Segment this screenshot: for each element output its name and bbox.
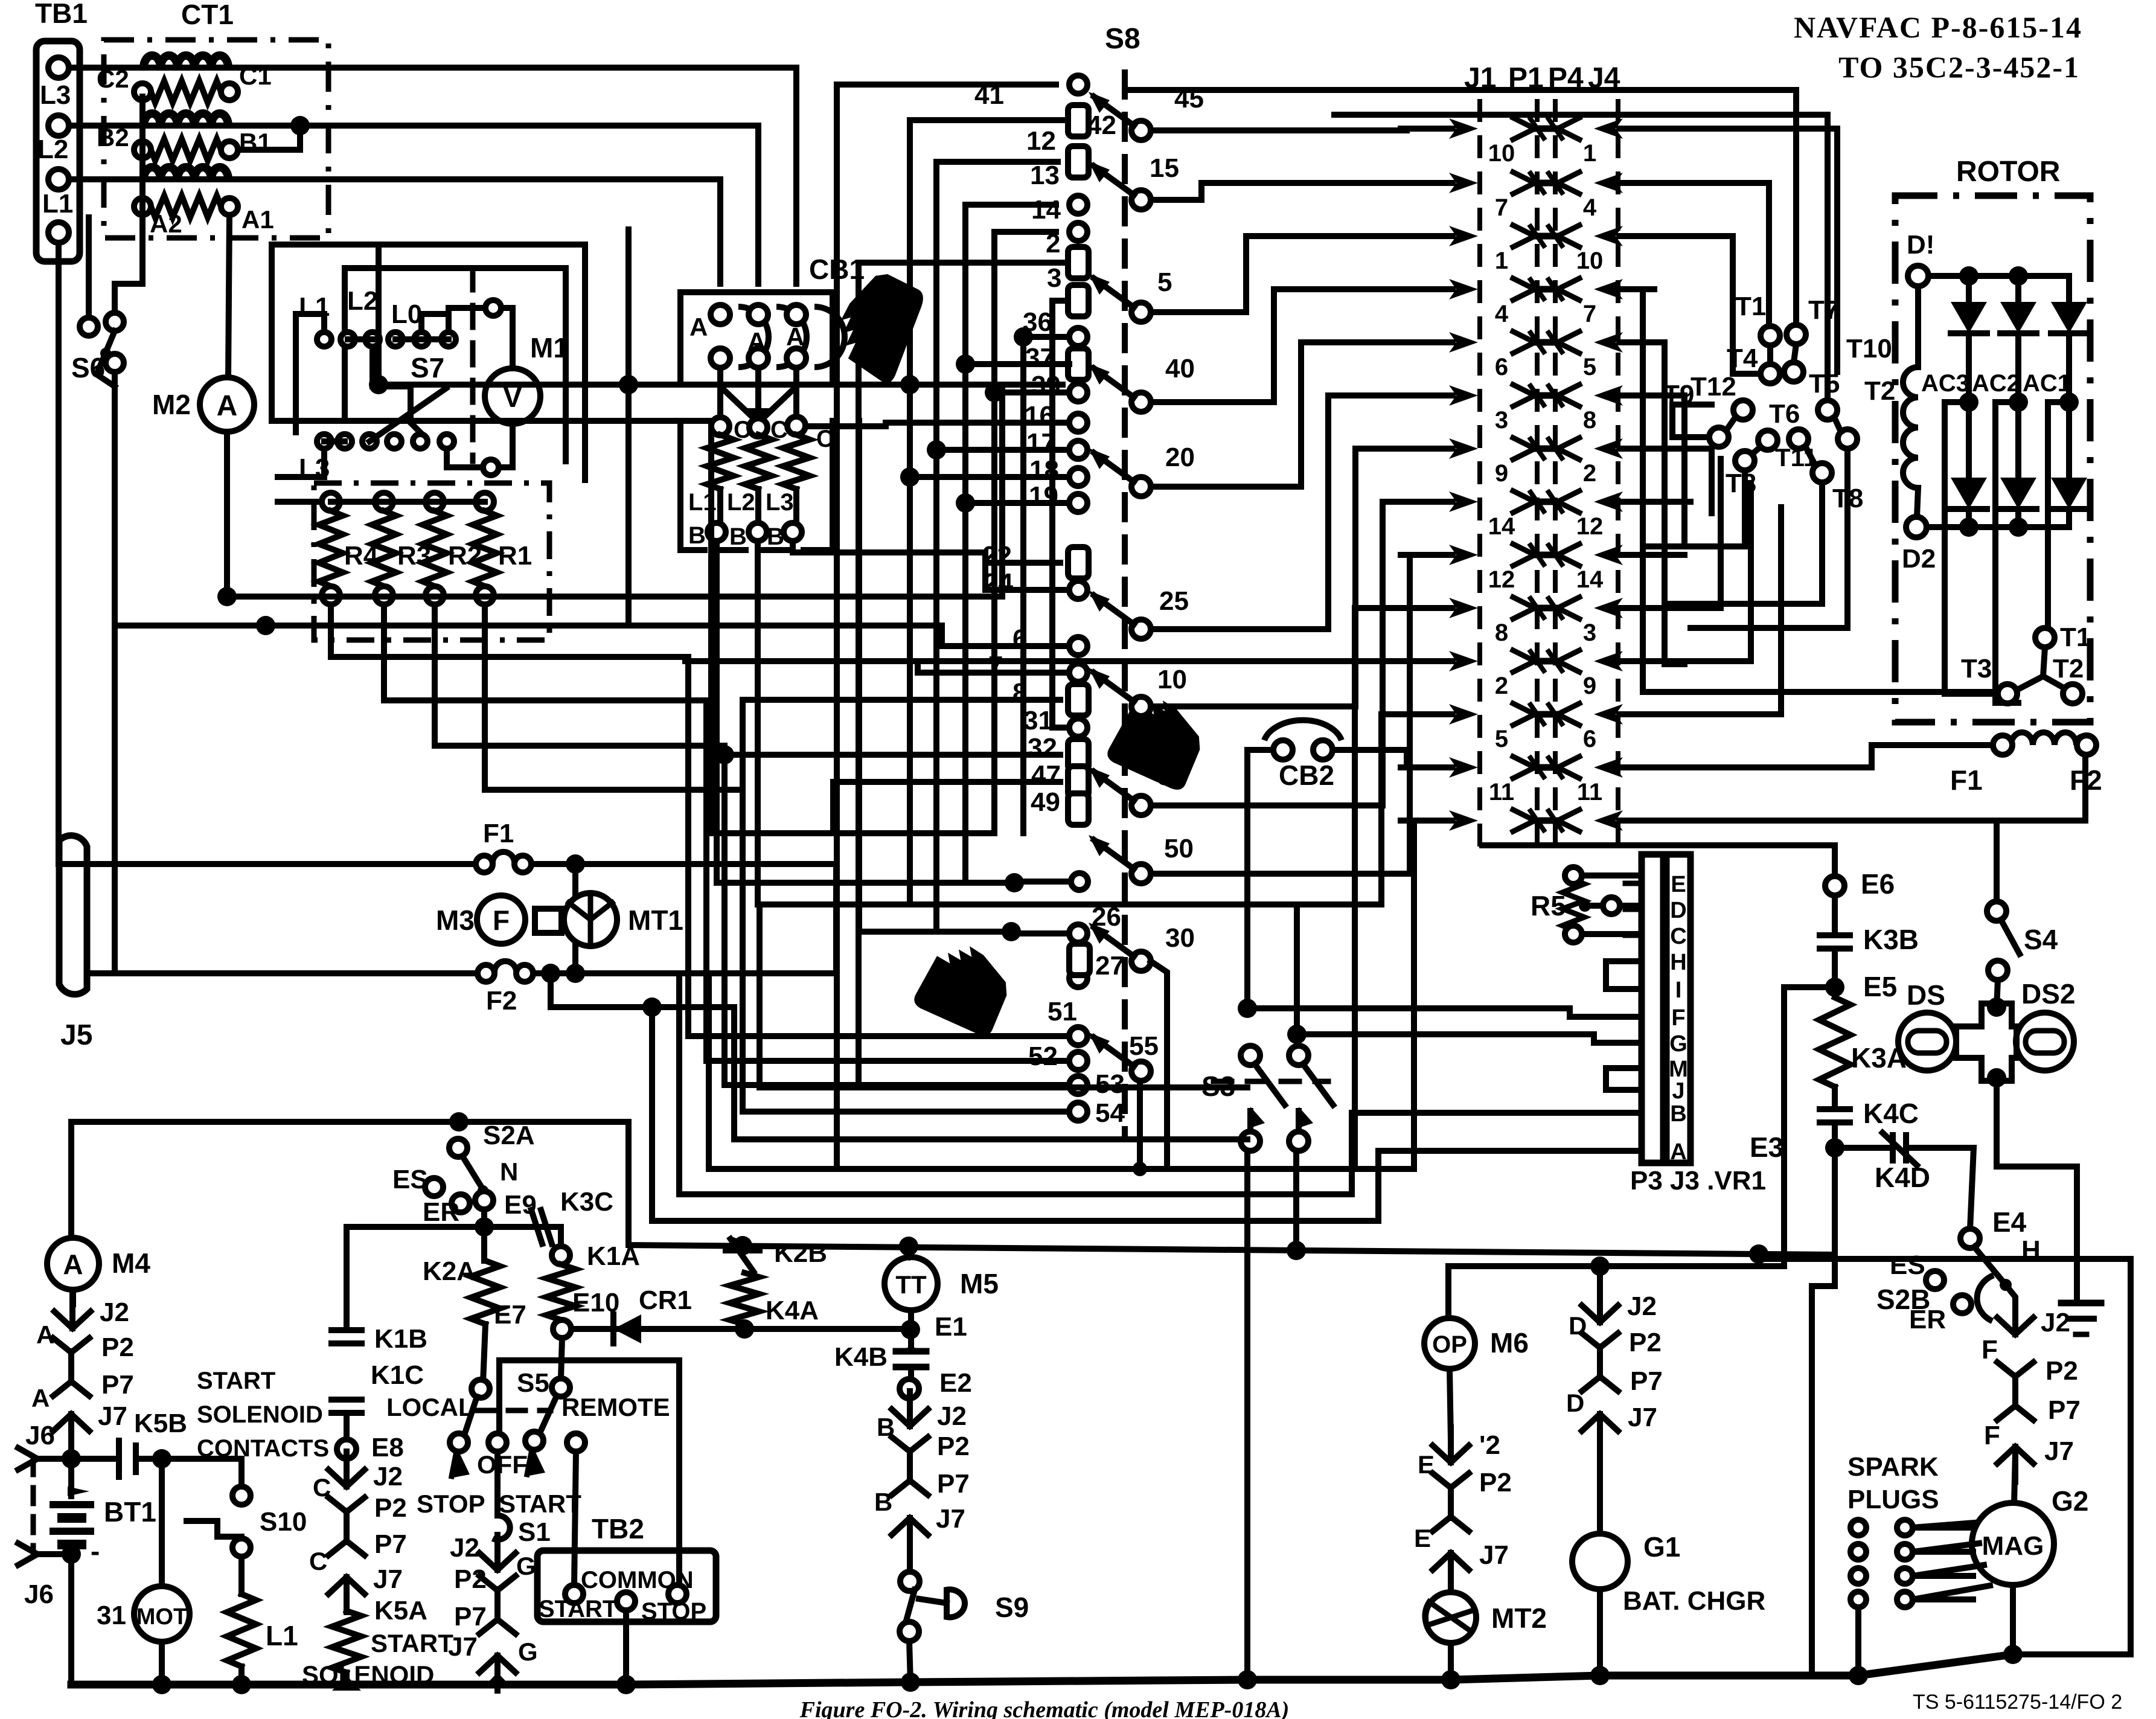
rotor diode bottom AC1 bbox=[2051, 478, 2087, 509]
S3 junction left bbox=[1238, 999, 1257, 1018]
S8 wiper blade 30 bbox=[1094, 927, 1134, 956]
wire M4 down bbox=[70, 1290, 76, 1304]
wire S10 to L1 bbox=[238, 1557, 245, 1594]
svg-text:K4C: K4C bbox=[1863, 1098, 1919, 1129]
svg-text:10: 10 bbox=[1157, 665, 1187, 694]
M6 J7 arrow bbox=[1448, 1553, 1454, 1588]
svg-text:K3C: K3C bbox=[560, 1187, 613, 1217]
svg-text:J6: J6 bbox=[24, 1580, 54, 1609]
CB1 pole wire bbox=[793, 368, 799, 417]
svg-text:E8: E8 bbox=[371, 1433, 404, 1462]
wire CB1 B2 out bbox=[755, 541, 761, 904]
E8 terminal bbox=[337, 1439, 356, 1459]
CT1 secondary B left terminal bbox=[134, 141, 151, 158]
svg-text:P7: P7 bbox=[2048, 1395, 2081, 1425]
wire S8 19 left bbox=[965, 500, 1069, 506]
svg-text:J7: J7 bbox=[448, 1632, 478, 1662]
svg-text:G1: G1 bbox=[1643, 1531, 1680, 1563]
S6 lower contact bbox=[106, 354, 124, 372]
rotor diode bottom AC3 bbox=[1951, 478, 1987, 509]
junction bus s3 bbox=[1238, 1670, 1257, 1689]
wire M5 stub bbox=[909, 1246, 911, 1257]
E3 junction bbox=[1825, 1138, 1844, 1157]
S3 blade 2 bbox=[1303, 1064, 1333, 1105]
svg-text:P7: P7 bbox=[937, 1469, 970, 1499]
svg-text:E1: E1 bbox=[935, 1312, 967, 1342]
svg-text:P3 J3 .VR1: P3 J3 .VR1 bbox=[1630, 1166, 1766, 1196]
E1 junction bbox=[901, 1320, 920, 1339]
S8 terminal 26 bbox=[1069, 924, 1087, 943]
ER contact right bbox=[1953, 1295, 1971, 1313]
rotor wye T3 terminal bbox=[1998, 684, 2017, 703]
relay coil K5A bbox=[332, 1611, 361, 1673]
svg-text:15: 15 bbox=[1150, 153, 1179, 183]
junction spark bottom bbox=[1849, 1666, 1868, 1685]
connector row 8 J1 arrow bbox=[1449, 491, 1478, 512]
wire S8 39 left bbox=[994, 389, 1069, 395]
svg-text:LOCAL: LOCAL bbox=[386, 1393, 474, 1421]
svg-text:14: 14 bbox=[1576, 566, 1604, 593]
S8 wiper blade 15 bbox=[1094, 166, 1134, 195]
B J7 arrow bbox=[907, 1518, 913, 1553]
wire 55 down bbox=[1137, 1081, 1143, 1169]
K1A top contact bbox=[552, 1246, 570, 1264]
bus y988 bbox=[227, 594, 1002, 600]
wire E9 bus bbox=[347, 1224, 484, 1230]
VR1 pin stub G bbox=[1625, 1040, 1642, 1046]
resistor R4 top terminal bbox=[322, 493, 340, 511]
rotor wye T2 terminal bbox=[2063, 684, 2082, 703]
svg-text:7: 7 bbox=[1583, 301, 1596, 327]
svg-text:REMOTE: REMOTE bbox=[561, 1393, 670, 1421]
svg-text:G: G bbox=[1669, 1031, 1687, 1057]
svg-text:L3: L3 bbox=[299, 453, 330, 483]
svg-text:8: 8 bbox=[1583, 407, 1596, 434]
resistor R4 bottom terminal bbox=[322, 586, 340, 604]
connector row 9 fish bbox=[1513, 544, 1535, 566]
TB1 terminal L2 bbox=[48, 115, 69, 136]
M6 P2 P7 pair bbox=[1448, 1487, 1454, 1518]
S8 terminal 16 bbox=[1069, 414, 1087, 432]
wire bundle corner v1216 bbox=[734, 1007, 1247, 1139]
bus y637 bbox=[379, 382, 1063, 388]
VR1 pin stub J bbox=[1625, 1087, 1642, 1093]
S8 wiper contact 25 bbox=[1131, 619, 1151, 639]
svg-text:53: 53 bbox=[1095, 1069, 1125, 1099]
bus y1036 bbox=[115, 623, 685, 629]
VR1 pin stub I bbox=[1625, 987, 1642, 992]
svg-text:E3: E3 bbox=[1750, 1132, 1783, 1163]
svg-text:B: B bbox=[874, 1488, 892, 1516]
E10 terminal bbox=[553, 1320, 571, 1338]
svg-text:S4: S4 bbox=[2024, 924, 2058, 955]
resistor R1 bottom terminal bbox=[476, 586, 494, 604]
svg-text:ES: ES bbox=[1890, 1250, 1925, 1280]
S9 blade bbox=[904, 1590, 915, 1627]
svg-text:2: 2 bbox=[1583, 460, 1596, 487]
wire K4C down bbox=[1832, 1122, 1838, 1148]
S3 blade 1 bbox=[1255, 1064, 1285, 1105]
S2B arc bbox=[1977, 1275, 1994, 1321]
svg-text:B: B bbox=[688, 522, 706, 549]
connector row 6 fish bbox=[1513, 385, 1535, 406]
wire S3 right drop bbox=[1294, 904, 1300, 1034]
wire S8 36 left bbox=[1023, 337, 1069, 833]
fuse F2 wire bbox=[87, 970, 478, 976]
spark plug 2 bbox=[1897, 1544, 1913, 1560]
CT1 primary coil C bbox=[144, 56, 228, 68]
wire 20 to J1 bbox=[1151, 342, 1446, 487]
S8 terminal 51 bbox=[1069, 1027, 1087, 1045]
connector dashed line bbox=[1553, 101, 1558, 845]
S8 wiper contact 20 bbox=[1131, 477, 1151, 496]
svg-text:L1: L1 bbox=[42, 189, 73, 219]
wire S8 3 left bbox=[1052, 301, 1063, 728]
wire 53 col down bbox=[721, 746, 728, 1085]
S8 terminal 36 bbox=[1069, 328, 1087, 346]
junction G1 bottom bbox=[1590, 1666, 1610, 1685]
wire A2 down to S6 bbox=[86, 217, 92, 317]
wire bundle h2 bbox=[999, 385, 1005, 597]
wire S8 13 left bbox=[965, 205, 1056, 883]
svg-text:OFF: OFF bbox=[477, 1450, 528, 1479]
CT1 secondary A right terminal bbox=[221, 198, 238, 215]
wire S8 47 left bbox=[833, 782, 1060, 833]
wire E9 down bbox=[481, 1209, 487, 1261]
svg-text:10: 10 bbox=[1488, 140, 1515, 167]
wire CB1 B1 out bbox=[717, 541, 1070, 883]
wire MT2 down bbox=[1448, 1643, 1454, 1680]
S7 outer box bbox=[272, 245, 585, 480]
svg-text:L0: L0 bbox=[391, 299, 422, 329]
S7 bottom contact row bbox=[317, 434, 331, 449]
VR1 pin stub E bbox=[1625, 881, 1642, 886]
S4 blade bbox=[2001, 920, 2020, 954]
starter motor MOT bbox=[134, 1586, 190, 1642]
svg-text:F: F bbox=[493, 904, 510, 936]
capacitor K1C bbox=[331, 1397, 362, 1403]
wire 51 col down bbox=[685, 657, 691, 1036]
START contact bbox=[525, 1432, 543, 1450]
wire K3C right bbox=[484, 1224, 520, 1230]
svg-text:27: 27 bbox=[1095, 951, 1125, 981]
S8 terminal 19 bbox=[1069, 494, 1087, 512]
wire G1 down bbox=[1597, 1589, 1603, 1676]
wire E4 to col bbox=[2006, 1285, 2015, 1309]
spark gap left 2 bbox=[1851, 1544, 1866, 1560]
T terminal T8 bbox=[1812, 463, 1832, 482]
svg-text:K4B: K4B bbox=[834, 1342, 888, 1372]
bottom bus bbox=[71, 1654, 2013, 1685]
svg-text:TB2: TB2 bbox=[592, 1513, 644, 1545]
svg-text:12: 12 bbox=[1488, 566, 1515, 593]
S7 internal wiring 2 bbox=[373, 348, 420, 432]
svg-text:S8: S8 bbox=[1105, 23, 1140, 55]
wire MAG down bbox=[2010, 1585, 2016, 1654]
S8 terminal 31 bbox=[1069, 719, 1087, 737]
TB2 COMMON terminal bbox=[617, 1592, 635, 1610]
junction J6 minus bbox=[62, 1545, 81, 1564]
connector row 11 J4 arrow bbox=[1594, 651, 1623, 671]
relay K3A zigzag bbox=[1819, 997, 1851, 1087]
CB1 pole bottom contact bbox=[787, 348, 806, 368]
svg-text:13: 13 bbox=[1030, 161, 1060, 190]
svg-text:S9: S9 bbox=[995, 1592, 1029, 1623]
junction J6 plus bbox=[62, 1449, 81, 1468]
svg-text:F1: F1 bbox=[483, 819, 514, 848]
S8 wiper contact 40 bbox=[1131, 392, 1151, 412]
S8 wiper blade 40 bbox=[1094, 368, 1134, 397]
junction 19 feed bbox=[956, 493, 975, 513]
lamp DS bbox=[1898, 1013, 1956, 1071]
CB1 C contacts bbox=[711, 417, 729, 435]
S10 squiggle bbox=[187, 1521, 242, 1537]
junction v1080 bbox=[642, 997, 662, 1017]
svg-text:ER: ER bbox=[423, 1197, 459, 1227]
connector row 10 J1 arrow bbox=[1449, 598, 1478, 618]
svg-text:M6: M6 bbox=[1490, 1327, 1529, 1359]
wire K2A down bbox=[483, 1324, 485, 1383]
wire L2 line bbox=[69, 126, 758, 284]
rotor diode top AC2 bbox=[2015, 276, 2021, 302]
connector row 1 J1 arrow bbox=[1449, 118, 1478, 139]
svg-text:19: 19 bbox=[1029, 481, 1058, 511]
field coil right terminal bbox=[2077, 735, 2096, 755]
wire S6 down bbox=[87, 372, 115, 973]
CB1 heater lead bbox=[755, 489, 761, 523]
junction 39 feed bbox=[985, 383, 1004, 402]
svg-text:S2B: S2B bbox=[1876, 1284, 1930, 1315]
ground symbol bbox=[2061, 1300, 2101, 1307]
S8 terminal 49 bbox=[1068, 793, 1089, 825]
G1 J7 arrow bbox=[1597, 1414, 1603, 1449]
S8 wiper blade 35 bbox=[1094, 772, 1134, 801]
wire S8 17 left bbox=[936, 447, 1069, 453]
wire 40 to J1 bbox=[1151, 289, 1446, 402]
capacitor K1B bbox=[331, 1327, 362, 1333]
S8 terminal 41 bbox=[1069, 75, 1087, 94]
wire 54 col down bbox=[740, 700, 746, 1112]
CB2 contact right bbox=[1313, 740, 1332, 760]
svg-text:A: A bbox=[786, 322, 804, 351]
wire J4 r11 bbox=[1654, 483, 1751, 661]
svg-text:K3B: K3B bbox=[1863, 924, 1919, 955]
bus y2097 bbox=[1448, 1263, 1784, 1269]
wire T8 drop bbox=[1665, 482, 1822, 604]
svg-text:30: 30 bbox=[1165, 923, 1195, 953]
M6 J2 arrow bbox=[1448, 1427, 1454, 1462]
wire S3 pole2 down bbox=[1293, 1151, 1299, 1250]
junction 37 feed bbox=[956, 354, 975, 374]
connector row 3 J4 arrow bbox=[1594, 226, 1623, 246]
svg-text:52: 52 bbox=[1028, 1042, 1058, 1071]
svg-text:J5: J5 bbox=[60, 1019, 92, 1051]
wire E5 left bbox=[1784, 987, 1835, 1266]
svg-text:K2A: K2A bbox=[423, 1256, 476, 1286]
S8 wiper contact 15 bbox=[1131, 190, 1151, 210]
svg-text:T2: T2 bbox=[2053, 654, 2084, 683]
wire R top feed bbox=[278, 499, 322, 505]
wire bundle corner v1258 bbox=[760, 904, 1247, 1087]
svg-text:T10: T10 bbox=[1846, 334, 1892, 363]
connector row 4 J1 arrow bbox=[1449, 279, 1478, 299]
S7 internal wiring 1 bbox=[296, 314, 324, 432]
svg-text:A: A bbox=[63, 1249, 83, 1280]
rotor junction top a bbox=[1959, 266, 1978, 286]
wire S8 2 left bbox=[859, 263, 1063, 1087]
S6 contact 2 bbox=[106, 313, 124, 331]
R5 bottom terminal bbox=[1565, 926, 1582, 943]
S7 top contact row bbox=[317, 332, 331, 347]
wire F2 branch2 bbox=[679, 973, 1642, 1194]
S6 blade bbox=[97, 331, 115, 386]
wire CB2 right to J1 bbox=[1332, 750, 1446, 767]
wire M6 down bbox=[1450, 1369, 1451, 1440]
spark plug 4 bbox=[1897, 1592, 1913, 1607]
spark plug 1 bbox=[1897, 1520, 1913, 1535]
S10 contact bottom bbox=[232, 1538, 251, 1557]
wire ground stub bbox=[2074, 1292, 2080, 1303]
CB1 pole bottom contact bbox=[749, 348, 768, 368]
svg-text:1: 1 bbox=[1495, 248, 1508, 274]
svg-text:F1: F1 bbox=[1950, 764, 1983, 796]
svg-text:TO 35C2-3-452-1: TO 35C2-3-452-1 bbox=[1838, 50, 2080, 84]
svg-text:A1: A1 bbox=[242, 205, 274, 234]
CT1 primary coil A bbox=[144, 167, 228, 179]
svg-text:4: 4 bbox=[1495, 301, 1509, 327]
svg-text:5: 5 bbox=[1157, 267, 1172, 297]
wire M4 top bbox=[68, 1122, 74, 1239]
wire S4 down bbox=[1997, 980, 1998, 1007]
connector row 11 fish bbox=[1513, 650, 1535, 672]
magneto MAG bbox=[1972, 1503, 2054, 1585]
E8 J7 arrow bbox=[344, 1577, 350, 1612]
junction MAG corner bbox=[1749, 1244, 1768, 1264]
wire J4 r10 bbox=[1654, 459, 1721, 608]
S7 bottom strap bbox=[324, 438, 345, 444]
S1 switch bbox=[493, 1516, 510, 1540]
resistor R4 bbox=[319, 511, 343, 586]
junction y637 a bbox=[369, 375, 388, 394]
contact K2B bbox=[740, 1246, 746, 1251]
svg-text:7: 7 bbox=[988, 651, 1003, 680]
VR1 pin stub H bbox=[1625, 959, 1642, 964]
svg-text:B: B bbox=[767, 523, 784, 550]
S8 wiper blade 45 bbox=[1094, 97, 1134, 126]
diode CR1 bbox=[613, 1314, 641, 1343]
svg-text:M2: M2 bbox=[152, 389, 191, 420]
wire J4 r1 bbox=[1654, 129, 1837, 372]
E2 J2 arrow bbox=[907, 1391, 913, 1426]
CB1 pole top contact bbox=[787, 305, 806, 324]
wire 25 to J1 bbox=[1151, 395, 1446, 629]
K3C contact bbox=[520, 1224, 555, 1230]
svg-text:J2: J2 bbox=[2041, 1308, 2070, 1337]
svg-text:1: 1 bbox=[1583, 140, 1596, 167]
STOP contact bbox=[450, 1433, 468, 1452]
T terminal T3 bbox=[1735, 451, 1755, 470]
oil pressure M6 bbox=[1424, 1318, 1475, 1369]
svg-text:T3: T3 bbox=[1961, 654, 1992, 683]
T terminal T7 bbox=[1787, 325, 1806, 344]
svg-text:T6: T6 bbox=[1769, 399, 1800, 429]
junction 18 feed bbox=[900, 467, 920, 487]
svg-text:P7: P7 bbox=[374, 1529, 407, 1559]
bus x1041 bbox=[625, 229, 632, 626]
svg-text:6: 6 bbox=[1495, 354, 1508, 380]
M4 P2 P7 pair bbox=[68, 1351, 74, 1383]
S8 wiper contact 50 bbox=[1131, 864, 1151, 883]
connector row 12 fish bbox=[1513, 703, 1535, 725]
svg-text:M5: M5 bbox=[960, 1268, 999, 1299]
svg-text:J7: J7 bbox=[98, 1401, 127, 1431]
fuse F2 bbox=[478, 965, 494, 982]
S1 J2 arrow bbox=[494, 1535, 501, 1570]
E6 terminal bbox=[1825, 876, 1844, 895]
S8 terminal 52 bbox=[1069, 1052, 1087, 1070]
svg-text:PLUGS: PLUGS bbox=[1847, 1485, 1939, 1514]
svg-text:OP: OP bbox=[1432, 1331, 1467, 1358]
svg-text:D: D bbox=[1566, 1389, 1584, 1417]
R resistor dashed box bbox=[314, 483, 549, 640]
svg-text:2: 2 bbox=[1046, 229, 1060, 258]
rotor junction bottom b bbox=[2009, 517, 2028, 537]
junction 49 wire bbox=[1005, 873, 1024, 892]
junction E9 bbox=[475, 1217, 494, 1237]
T strap T1 T4 bbox=[1767, 345, 1773, 364]
OFF contact bbox=[488, 1433, 507, 1452]
wire MT1 bottom bbox=[572, 946, 578, 973]
fuse F1 bbox=[476, 856, 493, 872]
capacitor K4C bbox=[1832, 1087, 1838, 1107]
R box top bus bbox=[331, 499, 485, 505]
S8 wiper contact 45 bbox=[1131, 121, 1151, 140]
49 feed contact bbox=[1071, 873, 1088, 890]
svg-text:NAVFAC P-8-615-14: NAVFAC P-8-615-14 bbox=[1794, 10, 2082, 44]
wire S3 bus left bbox=[1247, 1008, 1642, 1017]
wire J4 r7 bbox=[1654, 449, 1712, 513]
svg-text:L1: L1 bbox=[266, 1620, 298, 1651]
VR1 pin stub A bbox=[1625, 1148, 1642, 1154]
svg-text:C: C bbox=[1670, 924, 1686, 949]
junction M5 top bbox=[899, 1237, 918, 1256]
S8 terminal 53 bbox=[1069, 1076, 1087, 1094]
voltmeter M1 circle bbox=[485, 368, 540, 424]
wire J4 r8 bbox=[1654, 499, 1691, 505]
svg-text:47: 47 bbox=[1031, 760, 1061, 790]
wire S8 6 left bbox=[685, 626, 1069, 646]
svg-text:14: 14 bbox=[1031, 195, 1061, 225]
S8 terminal 18 bbox=[1069, 468, 1087, 486]
connector row 8 J4 arrow bbox=[1594, 491, 1623, 512]
wire F2 branch down bbox=[551, 973, 734, 1007]
wire bundle corner v1080 bbox=[652, 1007, 1642, 1221]
MAG P2 P7 pair bbox=[2012, 1375, 2018, 1407]
lamp DS2 bbox=[2016, 1013, 2074, 1071]
S3 pole 2 upper bbox=[1289, 1046, 1308, 1065]
wire row11 long bbox=[685, 658, 1446, 664]
relay K4A zigzag bbox=[730, 1273, 759, 1324]
S8 terminal 17 bbox=[1069, 441, 1087, 459]
E9 contact bbox=[475, 1191, 493, 1209]
svg-text:START: START bbox=[499, 1490, 581, 1518]
CB1 box bbox=[680, 292, 833, 385]
wire bundle h1 bbox=[708, 421, 714, 833]
connector row 1 fish bbox=[1513, 118, 1535, 139]
svg-text:START: START bbox=[197, 1368, 275, 1394]
svg-text:J2: J2 bbox=[450, 1533, 479, 1563]
CB1 breaker arc bbox=[776, 307, 807, 367]
